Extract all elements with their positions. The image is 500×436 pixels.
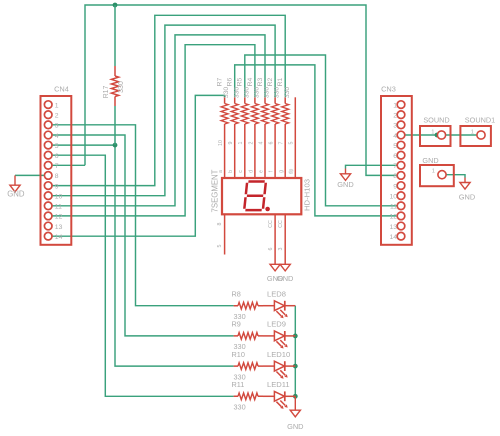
svg-text:9: 9	[228, 141, 234, 144]
wire CN3 pin4 to SOUND and SOUND1	[405, 134, 478, 136]
svg-text:R10: R10	[232, 350, 245, 359]
connector GND box	[420, 165, 454, 186]
svg-text:GND: GND	[277, 274, 293, 283]
svg-text:d: d	[248, 170, 254, 173]
svg-text:1: 1	[55, 102, 59, 109]
junction R17 bottom / pin5 / down wire	[113, 143, 118, 148]
connector SOUND1	[460, 126, 491, 146]
svg-text:330: 330	[264, 87, 271, 99]
svg-text:R7: R7	[217, 77, 224, 86]
svg-text:330: 330	[223, 87, 230, 99]
svg-text:R6: R6	[227, 77, 234, 86]
svg-text:LED9: LED9	[267, 320, 286, 329]
svg-text:330: 330	[118, 81, 125, 93]
wire LED cathode rail	[294, 306, 296, 397]
svg-text:f: f	[269, 170, 275, 172]
svg-text:7: 7	[393, 163, 397, 170]
svg-text:13: 13	[389, 224, 397, 231]
wire CN3 pin12 to R6 top	[235, 65, 398, 216]
svg-text:SOUND1: SOUND1	[465, 116, 495, 125]
svg-text:3: 3	[393, 123, 397, 130]
LED LED10	[263, 365, 274, 367]
svg-text:5: 5	[393, 143, 397, 150]
display bottom-left pin	[224, 214, 226, 254]
svg-text:R5: R5	[237, 77, 244, 86]
wire CN4 pin14 to R7 top	[52, 95, 224, 236]
resistor R3	[264, 97, 266, 178]
resistor R4	[254, 97, 256, 178]
junction at SOUND pin	[435, 133, 440, 138]
svg-text:6: 6	[55, 153, 59, 160]
resistor R17	[114, 5, 116, 66]
svg-text:2: 2	[248, 141, 254, 144]
svg-text:GND: GND	[459, 193, 475, 202]
svg-text:9: 9	[55, 183, 59, 190]
svg-text:8: 8	[393, 173, 397, 180]
wire CN3 GND stem	[345, 169, 347, 174]
wire CN4 GND stem	[14, 175, 16, 185]
svg-text:R8: R8	[232, 290, 241, 299]
svg-text:R1: R1	[277, 77, 284, 86]
connector CN4	[41, 96, 72, 245]
ground symbol at CN3 pin7	[340, 174, 350, 181]
svg-text:13: 13	[55, 224, 63, 231]
wire CN4 pin7 stub	[52, 164, 85, 166]
wire R17 junction down to R10	[115, 145, 234, 366]
svg-text:1: 1	[431, 130, 434, 136]
svg-text:8: 8	[55, 173, 59, 180]
wire CN4 pin11 to R3 top	[52, 35, 265, 206]
svg-text:330: 330	[254, 87, 261, 99]
wire CN4 pin8 to GND	[15, 174, 45, 176]
svg-text:14: 14	[389, 234, 397, 241]
ground symbol display CC1	[270, 264, 280, 271]
svg-text:6: 6	[269, 141, 275, 144]
svg-text:1: 1	[393, 102, 397, 109]
svg-text:3: 3	[278, 247, 284, 250]
svg-text:LED10: LED10	[267, 350, 290, 359]
resistor R2	[274, 97, 276, 178]
svg-text:HD-H103: HD-H103	[302, 179, 311, 211]
svg-text:CN4: CN4	[54, 85, 69, 94]
svg-text:R3: R3	[257, 77, 264, 86]
svg-text:12: 12	[389, 214, 397, 221]
svg-text:3: 3	[55, 123, 59, 130]
display dp lead	[294, 97, 296, 178]
svg-text:14: 14	[55, 234, 63, 241]
svg-text:CC: CC	[278, 220, 284, 228]
svg-text:R17: R17	[103, 85, 110, 98]
svg-text:9: 9	[393, 183, 397, 190]
wire CN4 pin9 to R1 top	[52, 15, 285, 185]
svg-text:11: 11	[390, 204, 397, 211]
svg-text:5: 5	[289, 141, 295, 144]
svg-text:CN3: CN3	[381, 85, 396, 94]
svg-text:6: 6	[268, 247, 274, 250]
svg-text:10: 10	[389, 194, 397, 201]
svg-text:7SEGMENT: 7SEGMENT	[210, 169, 219, 212]
wire top rail net pin7/CN3.8/R17	[85, 5, 398, 175]
ground symbol at CN4 pin8	[10, 185, 20, 192]
svg-text:330: 330	[233, 87, 240, 99]
wire CN4 pin3 to R8	[52, 125, 233, 306]
resistor R7	[224, 97, 226, 178]
svg-text:11: 11	[55, 204, 62, 211]
wire CN4 pin4 to R9	[52, 135, 233, 336]
wire GND box stem	[464, 178, 466, 183]
wire CN4 pin12 to R4 top	[52, 45, 255, 216]
svg-text:5: 5	[217, 244, 223, 247]
resistor R9	[234, 335, 263, 337]
LED LED11	[263, 395, 274, 397]
svg-text:e: e	[258, 170, 264, 173]
svg-text:R11: R11	[232, 380, 245, 389]
LED LED8	[263, 305, 274, 307]
junction top rail to R17	[113, 3, 118, 8]
wire GND box pin to ground	[446, 175, 465, 178]
svg-text:b: b	[228, 170, 234, 173]
svg-text:GND: GND	[7, 190, 25, 199]
display CC pin 2	[284, 214, 286, 264]
svg-text:R9: R9	[232, 320, 241, 329]
wire rail to GND symbol	[294, 396, 296, 409]
ground symbol below LED rail	[290, 410, 300, 417]
wire CN4 pin5 to R17 bottom	[52, 144, 115, 146]
connector CN3	[381, 96, 412, 245]
svg-text:2: 2	[393, 113, 397, 120]
svg-text:4: 4	[393, 133, 397, 140]
svg-text:CC: CC	[268, 220, 274, 228]
7-segment display U1 HD-H103	[222, 178, 301, 214]
svg-text:c: c	[238, 170, 244, 173]
junction LED11 cathode	[293, 394, 298, 399]
svg-text:1: 1	[432, 169, 435, 175]
svg-text:1: 1	[238, 141, 244, 144]
display CC pin 1	[274, 214, 276, 264]
svg-text:10: 10	[218, 140, 224, 146]
svg-text:6: 6	[393, 153, 397, 160]
svg-text:dp: dp	[289, 169, 295, 175]
svg-text:LED11: LED11	[267, 380, 290, 389]
svg-text:4: 4	[258, 141, 264, 144]
LED LED9	[263, 335, 274, 337]
svg-text:5: 5	[55, 143, 59, 150]
svg-text:12: 12	[55, 214, 63, 221]
svg-text:330: 330	[284, 87, 291, 99]
svg-text:GND: GND	[287, 422, 303, 431]
svg-text:330: 330	[243, 87, 250, 99]
wire CN3 pin7 to GND	[346, 165, 398, 168]
svg-text:GND: GND	[422, 156, 438, 165]
connector SOUND	[420, 126, 451, 146]
svg-text:R2: R2	[267, 77, 274, 86]
svg-text:g: g	[279, 170, 285, 173]
junction LED9 cathode	[293, 334, 298, 339]
resistor R8	[234, 305, 263, 307]
svg-text:2: 2	[55, 113, 59, 120]
resistor R11	[234, 395, 263, 397]
resistor R10	[234, 365, 263, 367]
svg-text:GND: GND	[337, 180, 353, 189]
svg-text:LED8: LED8	[267, 290, 286, 299]
resistor R6	[234, 97, 236, 178]
ground symbol for GND box	[460, 183, 470, 190]
svg-text:10: 10	[55, 194, 63, 201]
svg-text:SOUND: SOUND	[423, 116, 449, 125]
junction LED10 cathode	[293, 364, 298, 369]
wire CN3 pin11 to R5 top	[245, 55, 398, 206]
wire CN4 pin6 to R11	[52, 155, 233, 396]
svg-text:7: 7	[279, 141, 285, 144]
svg-text:4: 4	[55, 133, 59, 140]
svg-text:330: 330	[234, 403, 246, 412]
ground symbol display CC2	[280, 264, 290, 271]
svg-text:1: 1	[471, 130, 474, 136]
svg-text:8: 8	[217, 222, 223, 225]
svg-text:7: 7	[55, 163, 59, 170]
resistor R5	[244, 97, 246, 178]
resistor R1	[284, 97, 286, 178]
wire CN4 pin10 to R2 top	[52, 25, 275, 196]
svg-text:R4: R4	[247, 77, 254, 86]
svg-text:330: 330	[274, 87, 281, 99]
